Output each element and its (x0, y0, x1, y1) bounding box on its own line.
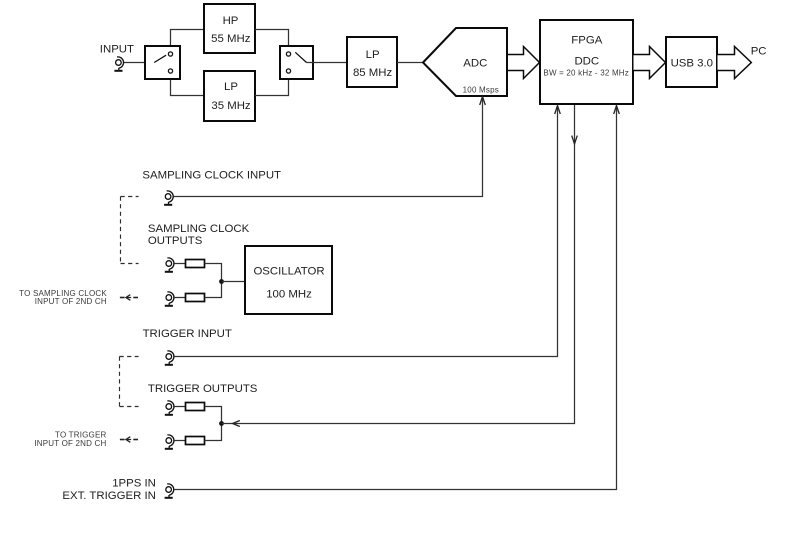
block OSCILLATOR 100 MHz (245, 246, 332, 314)
block FPGA DDC (540, 20, 633, 104)
block USB 3.0 (666, 37, 717, 87)
connector J7 trigger output 2 (165, 435, 174, 449)
wire junction to oscillator (222, 281, 246, 283)
arrowhead up into FPGA (trigger) (555, 106, 561, 114)
svg-text:SAMPLING CLOCK: SAMPLING CLOCK (148, 223, 250, 235)
wire sampling clock input to ADC (174, 97, 483, 197)
svg-text:100 Msps: 100 Msps (463, 86, 499, 95)
svg-text:BW = 20 kHz - 32 MHz: BW = 20 kHz - 32 MHz (543, 68, 629, 77)
wire pad to join (205, 424, 222, 441)
connector J8 1PPS / ext trigger in (165, 484, 174, 498)
svg-text:LP: LP (224, 81, 238, 93)
wire pad to join (205, 264, 222, 282)
dashed arrow to trigger input of 2nd channel (120, 437, 138, 443)
svg-text:85 MHz: 85 MHz (353, 67, 393, 79)
svg-text:PC: PC (751, 45, 767, 57)
connector J1 INPUT (114, 57, 123, 71)
wire trigger input to FPGA (174, 106, 557, 357)
resistor pad R3 (186, 403, 205, 411)
svg-text:OSCILLATOR: OSCILLATOR (253, 266, 324, 278)
ADC converter U1 (423, 28, 507, 96)
svg-text:INPUT OF 2ND CH: INPUT OF 2ND CH (35, 297, 107, 306)
wire 1PPS to FPGA (174, 106, 616, 490)
svg-text:INPUT OF 2ND CH: INPUT OF 2ND CH (34, 439, 106, 448)
wire FPGA to trigger outputs junction (222, 105, 575, 424)
connector J3 sampling clock output 1 (165, 258, 174, 272)
wire J3 to pad (174, 263, 185, 265)
wire pad to join (205, 407, 222, 424)
switch S2 (280, 46, 313, 79)
arrowhead left into junction (233, 421, 240, 427)
bus arrow USB to PC (718, 47, 752, 79)
connector J5 trigger input (165, 351, 174, 365)
svg-text:OUTPUTS: OUTPUTS (148, 235, 203, 247)
dashed arrow to sampling clock input of 2nd channel (120, 295, 138, 301)
svg-text:HP: HP (223, 15, 239, 27)
wire S1 bottom to LP35 (171, 74, 205, 96)
wire HP to S2 (255, 30, 289, 52)
junction trigger outputs (219, 421, 224, 426)
wire pad to join (205, 282, 222, 298)
dashed link sampling input to sampling outputs (121, 197, 139, 264)
svg-text:100 MHz: 100 MHz (266, 289, 312, 301)
switch S1 (145, 46, 180, 79)
svg-text:35 MHz: 35 MHz (211, 100, 251, 112)
resistor pad R2 (186, 294, 205, 302)
arrowhead up into ADC (480, 97, 486, 105)
wire S1 top to HP (171, 30, 205, 52)
svg-text:INPUT: INPUT (100, 44, 134, 56)
bus arrow FPGA to USB (634, 47, 666, 79)
connector J6 trigger output 1 (165, 401, 174, 415)
svg-text:LP: LP (366, 49, 380, 61)
svg-text:1PPS IN: 1PPS IN (112, 477, 156, 489)
svg-text:DDC: DDC (574, 55, 599, 67)
wire LP35 to S2 (255, 74, 289, 96)
dashed link trigger input to trigger outputs (120, 357, 139, 407)
svg-text:TRIGGER OUTPUTS: TRIGGER OUTPUTS (148, 383, 258, 395)
block LP 35 MHz (204, 71, 255, 121)
junction sampling outputs (219, 279, 224, 284)
bus arrow ADC to FPGA (508, 47, 540, 79)
wire S2 to LP85 (307, 62, 348, 64)
svg-text:USB 3.0: USB 3.0 (671, 57, 713, 69)
connector J2 sampling clock input (164, 191, 173, 205)
arrowhead up into FPGA (1PPS) (614, 106, 620, 114)
resistor pad R4 (186, 437, 205, 445)
arrowhead down on trigger output feed (572, 136, 578, 144)
svg-text:EXT. TRIGGER IN: EXT. TRIGGER IN (62, 490, 155, 502)
wire LP85 to ADC (397, 62, 423, 64)
block LP 85 MHz (347, 37, 397, 87)
svg-text:FPGA: FPGA (571, 34, 602, 46)
svg-text:55 MHz: 55 MHz (211, 33, 251, 45)
wire J7 to pad (174, 440, 185, 442)
wire INPUT to S1 lever (124, 62, 154, 64)
svg-text:TRIGGER INPUT: TRIGGER INPUT (143, 328, 232, 340)
svg-text:ADC: ADC (463, 58, 487, 70)
resistor pad R1 (186, 260, 205, 268)
block HP 55 MHz (204, 4, 255, 53)
svg-text:SAMPLING CLOCK INPUT: SAMPLING CLOCK INPUT (142, 169, 281, 181)
connector J4 sampling clock output 2 (165, 292, 174, 306)
wire J4 to pad (174, 297, 185, 299)
wire J6 to pad (174, 406, 185, 408)
